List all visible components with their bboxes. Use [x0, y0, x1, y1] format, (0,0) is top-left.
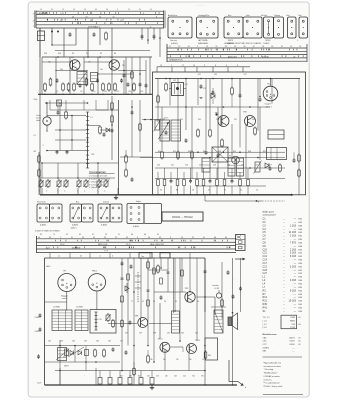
resistor R33 [298, 170, 301, 176]
trimmer capacitor CT2 [46, 181, 50, 186]
resistor RA3 [139, 124, 142, 130]
ferrite rod coil L1 [86, 112, 89, 168]
svg-text:C12: C12 [263, 255, 268, 258]
wires lower mid [204, 258, 206, 385]
svg-text:19 163: 19 163 [289, 300, 297, 303]
svg-text:61: 61 [299, 341, 301, 343]
svg-text:4: 4 [226, 65, 227, 67]
svg-text:43: 43 [159, 237, 161, 239]
svg-text:R1: R1 [100, 53, 102, 55]
svg-text:R5: R5 [72, 53, 74, 55]
svg-text:42: 42 [93, 237, 95, 239]
svg-text:35: 35 [40, 234, 42, 236]
svg-text:Onk: Onk [298, 15, 302, 17]
vertical x132 mid [131, 100, 133, 157]
transistor TR5 [218, 116, 229, 127]
svg-text:15: 15 [120, 20, 122, 22]
wires from selector table down to RF section [39, 28, 41, 57]
svg-text:T1: T1 [229, 156, 231, 158]
resistor R11 [38, 156, 41, 162]
svg-text:R21: R21 [263, 300, 268, 303]
diode D52 [70, 351, 74, 355]
svg-text:29: 29 [216, 46, 218, 48]
capacitor C65 [232, 295, 235, 298]
capacitor C24 [165, 131, 168, 134]
strip arrow to sheet b [235, 258, 243, 261]
svg-text:13: 13 [299, 46, 301, 48]
svg-text:44: 44 [150, 9, 152, 11]
svg-text:L4/5: L4/5 [91, 154, 94, 156]
coupling unit X-box [212, 147, 228, 162]
AF amplifier enclosure box [153, 72, 306, 195]
package drawing: bass control (bottom row 2) [70, 204, 82, 222]
resistor R19 [125, 170, 128, 176]
svg-text:6 163: 6 163 [290, 255, 297, 258]
svg-text:91: 91 [92, 234, 94, 236]
svg-text:OPUS: OPUS [265, 40, 271, 42]
capacitor C18 [120, 79, 123, 82]
svg-text:C14: C14 [263, 259, 268, 262]
capacitor C3c [153, 28, 155, 40]
svg-text:22: 22 [178, 46, 180, 48]
resistor RA2 [111, 116, 114, 122]
speaker socket J2 (DIN) [263, 86, 278, 101]
capacitor CA2 [131, 111, 134, 114]
svg-text:C11: C11 [263, 252, 268, 255]
IF transformer MF4 [172, 311, 180, 333]
svg-text:5: 5 [171, 65, 172, 67]
svg-text:23: 23 [72, 16, 74, 18]
svg-text:NORDEN: NORDEN [72, 247, 81, 249]
svg-text:3 163: 3 163 [290, 252, 297, 255]
svg-text:R18: R18 [44, 53, 47, 55]
RF mesh stub 1 [42, 61, 70, 63]
resistor R53 [112, 321, 115, 327]
RF mesh stub 5 [118, 70, 146, 72]
capacitor C3b [147, 28, 149, 44]
vertical x240.5 [240, 258, 242, 312]
resistor R51 [147, 262, 150, 268]
svg-text:R18: R18 [58, 53, 61, 55]
row of coupling capacitors on bottom bus [98, 378, 102, 385]
left rail capacitor C50B [39, 328, 42, 331]
wires upper mid column [123, 60, 125, 94]
svg-text:T1 | 1.2: T1 | 1.2 [263, 317, 271, 319]
capacitor C28 [217, 154, 220, 157]
mid bus of RF section [38, 92, 152, 97]
capacitor C14b [57, 111, 60, 114]
resistor RA1 [111, 103, 114, 109]
main chassis bus (upper schematic) [40, 192, 291, 197]
resistor R26 [279, 165, 282, 171]
bottom chassis bus (lower schematic) [45, 382, 238, 387]
ferrite antenna coil L17B/A [52, 310, 72, 331]
svg-text:Oml: Oml [286, 15, 290, 17]
svg-text:TF1: TF1 [63, 271, 66, 273]
svg-text:C11: C11 [104, 91, 107, 93]
antenna jack J1 [43, 117, 51, 125]
oscillator rail 1 [42, 162, 118, 164]
svg-text:C21: C21 [263, 265, 268, 268]
svg-text:60: 60 [131, 234, 133, 236]
capacitor C22 [200, 85, 203, 88]
capacitor C27 [205, 151, 208, 154]
package drawing: switch wafer A (right edge) [288, 17, 297, 38]
svg-text:C8: C8 [68, 91, 70, 93]
resistor R29 [191, 152, 194, 158]
socket FB1/2 (DIN) [88, 274, 105, 291]
svg-text:29 31: 29 31 [126, 244, 131, 246]
svg-text:61: 61 [299, 337, 301, 339]
cluster small box 1 [65, 349, 69, 356]
switch section (dashed) [137, 272, 139, 303]
capacitor C12 [103, 133, 106, 136]
resistor R32 [298, 155, 301, 161]
bias divider wires [49, 100, 51, 110]
capacitor C60 [204, 270, 207, 273]
svg-text:17: 17 [182, 65, 184, 67]
resistor R5 [91, 84, 94, 90]
svg-text:12478: 12478 [289, 337, 296, 339]
resistor R6 [102, 84, 105, 90]
capacitor C26 [269, 167, 272, 170]
svg-text:69: 69 [144, 234, 146, 236]
capacitor C17 [96, 79, 99, 82]
package drawing: input selector (leftmost) [168, 17, 192, 38]
RF mesh stub 2 [56, 70, 88, 72]
svg-text:d: d [258, 201, 259, 203]
capacitor C23 [212, 91, 215, 94]
RF left border wire [39, 28, 41, 195]
capacitor C4 [127, 83, 130, 86]
svg-text:11 163: 11 163 [289, 231, 297, 234]
capacitor C15 [56, 79, 59, 82]
cluster diag arrow [56, 350, 68, 360]
svg-text:6: 6 [117, 9, 118, 11]
trimmer capacitor CT7 [97, 181, 101, 186]
svg-text:R41: R41 [263, 306, 268, 309]
vertical divider wire x118 [117, 100, 120, 195]
resistor R59 [147, 300, 150, 306]
osc vertical wires [41, 163, 43, 178]
AF output-stage bias resistor row to chassis bus [157, 172, 159, 179]
connector strip: band switch bus (middle) [35, 236, 38, 253]
trimmer capacitor CT5 [77, 181, 81, 186]
svg-text:4k7: 4k7 [34, 151, 37, 153]
svg-text:46: 46 [214, 237, 216, 239]
svg-text:16: 16 [40, 9, 42, 11]
resistor R3 [62, 84, 65, 90]
electrolytic C30 [232, 156, 240, 164]
svg-text:52: 52 [115, 237, 117, 239]
capacitor C29 [293, 159, 296, 162]
capacitor C1 [69, 33, 72, 36]
svg-text:4: 4 [143, 13, 144, 15]
svg-text:25: 25 [192, 237, 194, 239]
AF junction dots [169, 78, 171, 80]
package drawing: band switch (bottom row 1) [37, 204, 50, 222]
svg-text:54: 54 [49, 237, 51, 239]
diode D1 [106, 128, 109, 132]
package drawing: tuner unit (view from below), label OMKOPPLARE [197, 17, 219, 38]
vertical x60 [59, 103, 61, 151]
svg-text:R35: R35 [233, 151, 236, 153]
oscillator transformer T2 [58, 348, 67, 361]
aux box on strip [160, 253, 170, 258]
svg-text:R4: R4 [114, 53, 116, 55]
vertical wires from strip into lower circuit [121, 258, 123, 371]
capacitor C13 [123, 74, 126, 77]
wire y150 [47, 149, 86, 151]
IF transformer MF2 [91, 73, 98, 82]
IF transformer MF1 [77, 72, 87, 85]
wires trimmers to chassis bus [41, 188, 43, 195]
resistor R34 [231, 88, 234, 94]
svg-text:MERCOLM: MERCOLM [98, 244, 108, 246]
parts list special rows with box [281, 315, 297, 329]
svg-text:C17: C17 [263, 262, 268, 265]
svg-text:TILL: TILL [267, 84, 271, 86]
capacitor C63 [112, 348, 115, 351]
svg-text:1 163: 1 163 [290, 235, 297, 238]
svg-text:C22: C22 [203, 88, 206, 90]
svg-text:Ton: Ton [141, 256, 144, 258]
transistor TR1 [70, 60, 80, 70]
resistor R13 [49, 79, 52, 85]
svg-text:Inbyggd: Inbyggd [61, 296, 67, 298]
capacitor C19 [145, 84, 148, 87]
wire y140 [55, 139, 86, 141]
switch table: wave-band selector bus (top left) [34, 11, 37, 29]
resistor R20 [165, 84, 168, 90]
svg-text:L17B/B: L17B/B [76, 307, 83, 309]
transformer LF1 [160, 120, 170, 141]
svg-text:24: 24 [188, 46, 190, 48]
svg-text:54: 54 [51, 9, 53, 11]
resistor R54 [121, 321, 124, 327]
transistor TR6 [245, 116, 256, 127]
svg-text:LF2: LF2 [173, 80, 176, 82]
transistor TR9 [185, 292, 195, 302]
svg-text:42: 42 [240, 190, 242, 192]
svg-text:8: 8 [215, 65, 216, 67]
svg-text:42: 42 [126, 237, 128, 239]
resistor R4 [73, 84, 76, 90]
AGC chain vertical x112 [111, 96, 113, 160]
resistor R56 [147, 356, 150, 362]
resistor R10 [65, 112, 68, 118]
diode D2 [265, 163, 269, 168]
svg-text:18: 18 [271, 46, 273, 48]
vertical wires RF section [41, 57, 43, 94]
output transformer T1 [228, 158, 235, 176]
capacitor C2 [93, 33, 96, 36]
vertical wires AF section [157, 79, 159, 123]
svg-text:4: 4 [33, 21, 34, 23]
svg-text:26: 26 [262, 46, 264, 48]
svg-text:1 932: 1 932 [290, 327, 296, 329]
svg-text:2: 2 [197, 46, 198, 48]
svg-text:L18: L18 [99, 319, 102, 321]
svg-text:58: 58 [192, 190, 194, 192]
switch S1 contact block [38, 31, 45, 41]
svg-text:41: 41 [139, 9, 141, 11]
svg-text:R37: R37 [263, 151, 266, 153]
svg-text:0,1: 0,1 [34, 135, 36, 137]
resistor R58 [121, 296, 124, 302]
svg-text:R36: R36 [248, 151, 251, 153]
capacitor C62 [37, 355, 40, 358]
svg-text:6: 6 [137, 237, 138, 239]
stubs band3 to lower box [49, 253, 51, 258]
svg-text:20: 20 [84, 9, 86, 11]
svg-text:C13: C13 [128, 91, 131, 93]
svg-text:1177: 1177 [164, 117, 168, 119]
coil L18 [94, 312, 97, 330]
svg-text:220p: 220p [34, 99, 38, 101]
svg-text:65: 65 [79, 234, 81, 236]
resistor R16 [108, 84, 111, 90]
svg-text:Infra/Omkr: Infra/Omkr [37, 202, 46, 204]
capacitor C61 [227, 271, 230, 274]
svg-text:O490: O490 [289, 344, 295, 346]
svg-text:Bas: Bas [76, 202, 79, 204]
wire drop x160 [159, 28, 161, 57]
svg-text:16: 16 [113, 16, 115, 18]
capacitor C11 [66, 150, 69, 153]
loudspeaker LS1 [228, 317, 232, 326]
svg-text:7 975: 7 975 [290, 241, 297, 244]
capacitor C46 [239, 94, 242, 97]
svg-text:R62: R62 [208, 355, 211, 357]
AF lower rail 2 [155, 167, 285, 169]
socket TF1 (DIN) [58, 274, 76, 292]
resistor R15 [85, 79, 88, 85]
title box: chassis model DR 106 - TR5 142 [162, 212, 203, 221]
strip termination connector [236, 235, 246, 251]
resistor R9 [131, 72, 134, 78]
capacitor C66 [125, 351, 128, 354]
svg-text:23: 23 [104, 237, 106, 239]
capacitor C51 [121, 262, 124, 265]
svg-text:12: 12 [86, 16, 88, 18]
capacitor C10 [56, 150, 59, 153]
volume pot P1 [155, 120, 160, 130]
jack J3 [216, 293, 221, 298]
choke cluster box [202, 158, 210, 172]
svg-text:R12: R12 [263, 296, 268, 299]
svg-text:2 163: 2 163 [290, 248, 297, 251]
vertical x140 mid [139, 100, 141, 152]
svg-text:10: 10 [128, 9, 130, 11]
svg-text:VOLYM: VOLYM [262, 56, 269, 58]
mid rail AF [155, 106, 270, 108]
svg-text:7: 7 [33, 26, 34, 28]
tone box on strip [139, 253, 152, 258]
trimmer capacitor CT4 [64, 181, 68, 186]
capacitor C64 [129, 321, 132, 324]
svg-text:C10: C10 [92, 91, 95, 93]
wire y110 [96, 109, 119, 111]
capacitor C52 [130, 265, 133, 268]
wire antenna feed [45, 102, 88, 104]
capacitor C3a [141, 28, 143, 40]
wires sockets to coils [66, 292, 68, 311]
svg-text:40: 40 [38, 237, 40, 239]
svg-text:d: d [112, 256, 113, 258]
capacitor C5 [139, 83, 142, 86]
bus arrow (to sheet b) [229, 380, 238, 383]
wire drops to bottom bus [59, 368, 61, 385]
svg-text:R34: R34 [218, 151, 221, 153]
svg-text:62: 62 [299, 344, 301, 346]
AF right column [298, 79, 300, 195]
connector strip: AF input/output terminal rows [165, 44, 168, 62]
svg-text:C23: C23 [263, 269, 268, 272]
RF section rail 2 [55, 49, 150, 51]
svg-text:59: 59 [82, 237, 84, 239]
AF rail y157 [140, 157, 285, 159]
resistor R28 [177, 152, 180, 158]
resistor R60 [94, 350, 97, 356]
left rail capacitor C50A [39, 314, 42, 317]
svg-text:54: 54 [256, 190, 258, 192]
AF extra vertical wires [161, 107, 163, 150]
cluster small box 2 [85, 350, 89, 356]
vertical x72 [71, 116, 73, 151]
svg-text:36: 36 [160, 190, 162, 192]
svg-text:a1: a1 [58, 256, 60, 258]
resistor R22 [197, 130, 200, 136]
transistor TR2 [109, 60, 119, 70]
svg-text:C107: C107 [37, 383, 41, 385]
capacitor C68 [160, 296, 163, 299]
svg-text:14: 14 [160, 65, 162, 67]
svg-text:21: 21 [169, 46, 171, 48]
svg-text:— · — · —: — · — · — [196, 5, 205, 7]
small box on antenna wire [57, 100, 62, 106]
IF transformer MF2 [172, 83, 184, 96]
svg-text:R31: R31 [173, 151, 176, 153]
resistor R24 [221, 140, 224, 146]
svg-text:31: 31 [71, 237, 73, 239]
wire y115 [47, 115, 86, 117]
svg-text:25: 25 [234, 46, 236, 48]
svg-text:C27: C27 [263, 272, 268, 275]
svg-text:HWG: HWG [290, 321, 295, 323]
svg-text:C6: C6 [44, 91, 46, 93]
connector block K2 [267, 148, 287, 160]
svg-text:1 163: 1 163 [290, 224, 297, 227]
package drawing: treble pot (pair right) [243, 17, 262, 38]
diode D3 [211, 94, 215, 99]
resistor R57 [133, 369, 136, 375]
svg-text:R30: R30 [263, 303, 268, 306]
resistor R8 [99, 127, 102, 133]
svg-text:8: 8 [156, 16, 157, 18]
left osc branch [38, 152, 40, 195]
svg-text:20: 20 [99, 16, 101, 18]
transistor TR8 [138, 318, 148, 328]
resistor R2 [44, 84, 47, 90]
svg-text:3 163: 3 163 [290, 265, 297, 268]
svg-text:VoOmk: VoOmk [261, 15, 267, 17]
svg-text:7 2 9: 7 2 9 [104, 251, 108, 253]
trimmer capacitor CT8 [104, 181, 108, 186]
RF mesh stub 4 [98, 73, 132, 75]
svg-text:R1: R1 [86, 53, 88, 55]
ground symbol G1 [115, 196, 118, 198]
